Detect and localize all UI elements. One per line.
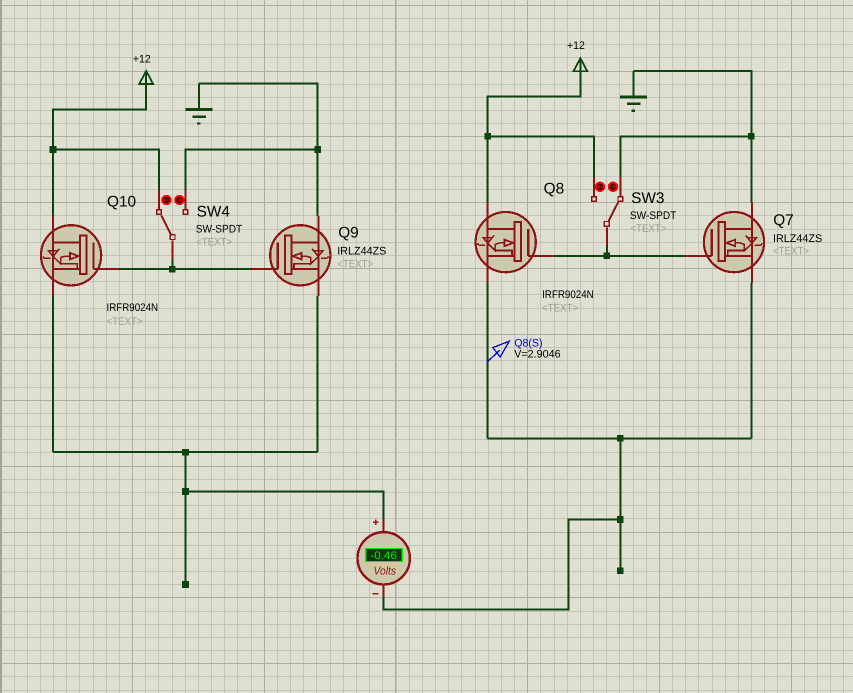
wire switch pole to gate bus	[606, 245, 608, 256]
switch pole contact	[604, 222, 609, 227]
power +12 right stem wire	[488, 61, 581, 137]
transistor Q7 IRLZ44ZS	[686, 203, 765, 283]
wire right rail segment A	[488, 136, 594, 177]
wire Q10 drain	[52, 150, 54, 216]
junction voltmeter return	[617, 516, 624, 523]
svg-text:Volts: Volts	[374, 566, 397, 578]
wire Q9 drain	[317, 150, 319, 216]
svg-text:+12: +12	[133, 54, 151, 66]
wire right output stub	[619, 438, 621, 570]
switch throw contact 1	[618, 197, 623, 202]
svg-text:IRFR9024N: IRFR9024N	[542, 289, 594, 301]
wire Q9 source down	[317, 296, 319, 452]
junction +12 rail / Q10 drain	[50, 146, 57, 153]
wire voltmeter minus return	[384, 520, 621, 610]
svg-text:SW4: SW4	[197, 203, 231, 220]
wire Q8 source down	[487, 283, 489, 439]
junction +12 rail / Q8 drain	[484, 133, 491, 140]
switch actuator dot left	[609, 183, 617, 191]
voltmeter circle	[358, 532, 410, 584]
svg-text:SW3: SW3	[631, 190, 664, 207]
wire to voltmeter plus	[186, 492, 384, 520]
wire right gate bus	[554, 255, 687, 257]
svg-text:<TEXT>: <TEXT>	[337, 259, 373, 271]
switch throw contact 1	[157, 210, 162, 215]
junction ground rail / Q7 drain	[748, 133, 755, 140]
switch throw contact 2	[592, 197, 597, 202]
voltmeter plus mark	[373, 520, 379, 526]
switch pole pin	[172, 241, 174, 259]
svg-text:-0.46: -0.46	[370, 550, 397, 562]
voltmeter pins	[382, 520, 384, 598]
svg-text:<TEXT>: <TEXT>	[773, 246, 809, 258]
junction voltmeter branch	[182, 488, 189, 495]
wire Q8 drain	[487, 136, 489, 202]
ground symbol right	[620, 71, 647, 111]
probe arrow Q8(S)	[488, 341, 509, 361]
junction SW4 pole / gate bus left	[169, 266, 176, 273]
svg-text:<TEXT>: <TEXT>	[542, 303, 578, 315]
svg-text:<TEXT>: <TEXT>	[630, 223, 666, 235]
wire right bottom rail	[488, 437, 752, 439]
wire switch pole to gate bus	[172, 259, 174, 270]
wire end node right	[617, 567, 624, 574]
svg-text:Q9: Q9	[338, 225, 359, 242]
power +12 left stem wire	[53, 73, 146, 150]
svg-text:IRFR9024N: IRFR9024N	[107, 302, 159, 314]
svg-text:SW-SPDT: SW-SPDT	[630, 210, 677, 222]
svg-text:Q10: Q10	[107, 194, 136, 211]
switch throw contact 2	[183, 210, 188, 215]
svg-text:SW-SPDT: SW-SPDT	[196, 224, 243, 236]
switch lever	[161, 215, 171, 234]
junction right bottom rail	[617, 435, 624, 442]
voltmeter LCD panel	[366, 548, 403, 561]
voltmeter body	[358, 520, 410, 598]
junction ground rail / Q9 drain	[314, 146, 321, 153]
wire Q7 source down	[750, 283, 752, 439]
junction SW3 pole / gate bus right	[604, 253, 611, 260]
switch throw pins	[594, 177, 620, 196]
voltmeter minus mark	[373, 593, 379, 595]
switch actuator dot right	[596, 183, 604, 191]
svg-text:<TEXT>: <TEXT>	[107, 316, 143, 328]
transistor Q9 IRLZ44ZS	[252, 216, 331, 296]
wire Q7 drain	[750, 136, 752, 202]
ground symbol left	[186, 84, 213, 124]
svg-text:IRLZ44ZS: IRLZ44ZS	[773, 233, 822, 245]
power arrow +12 left	[139, 71, 153, 84]
svg-text:Q7: Q7	[773, 212, 794, 229]
transistor Q8 IRFR9024N	[476, 203, 555, 283]
switch lever	[609, 202, 619, 221]
svg-text:Q8(S): Q8(S)	[514, 337, 542, 349]
ground left net wire	[199, 84, 318, 150]
switch pole pin	[606, 227, 608, 245]
wire left gate bus	[120, 268, 253, 270]
switch actuator dot right	[175, 196, 183, 204]
wire end node left	[182, 581, 189, 588]
wire left bottom rail	[53, 451, 318, 453]
svg-text:IRLZ44ZS: IRLZ44ZS	[337, 246, 386, 258]
svg-text:V=2.9046: V=2.9046	[514, 349, 560, 361]
svg-text:Q8: Q8	[544, 180, 565, 197]
switch throw pins	[159, 190, 185, 209]
switch actuator dot left	[162, 196, 170, 204]
wire left output stub	[185, 452, 187, 584]
transistor Q10 IRFR9024N	[41, 216, 120, 296]
svg-text:+12: +12	[567, 40, 585, 52]
ground right net wire	[634, 71, 752, 137]
wire right rail segment B	[620, 136, 751, 177]
switch SW3	[592, 177, 623, 256]
wire left rail segment A	[53, 150, 159, 191]
junction left bottom rail	[182, 449, 189, 456]
switch SW4	[157, 190, 188, 269]
wire Q10 source down	[52, 296, 54, 452]
switch pole contact	[170, 235, 175, 240]
wire left rail segment B	[185, 150, 317, 191]
power arrow +12 right	[574, 58, 588, 71]
svg-text:<TEXT>: <TEXT>	[196, 236, 232, 248]
